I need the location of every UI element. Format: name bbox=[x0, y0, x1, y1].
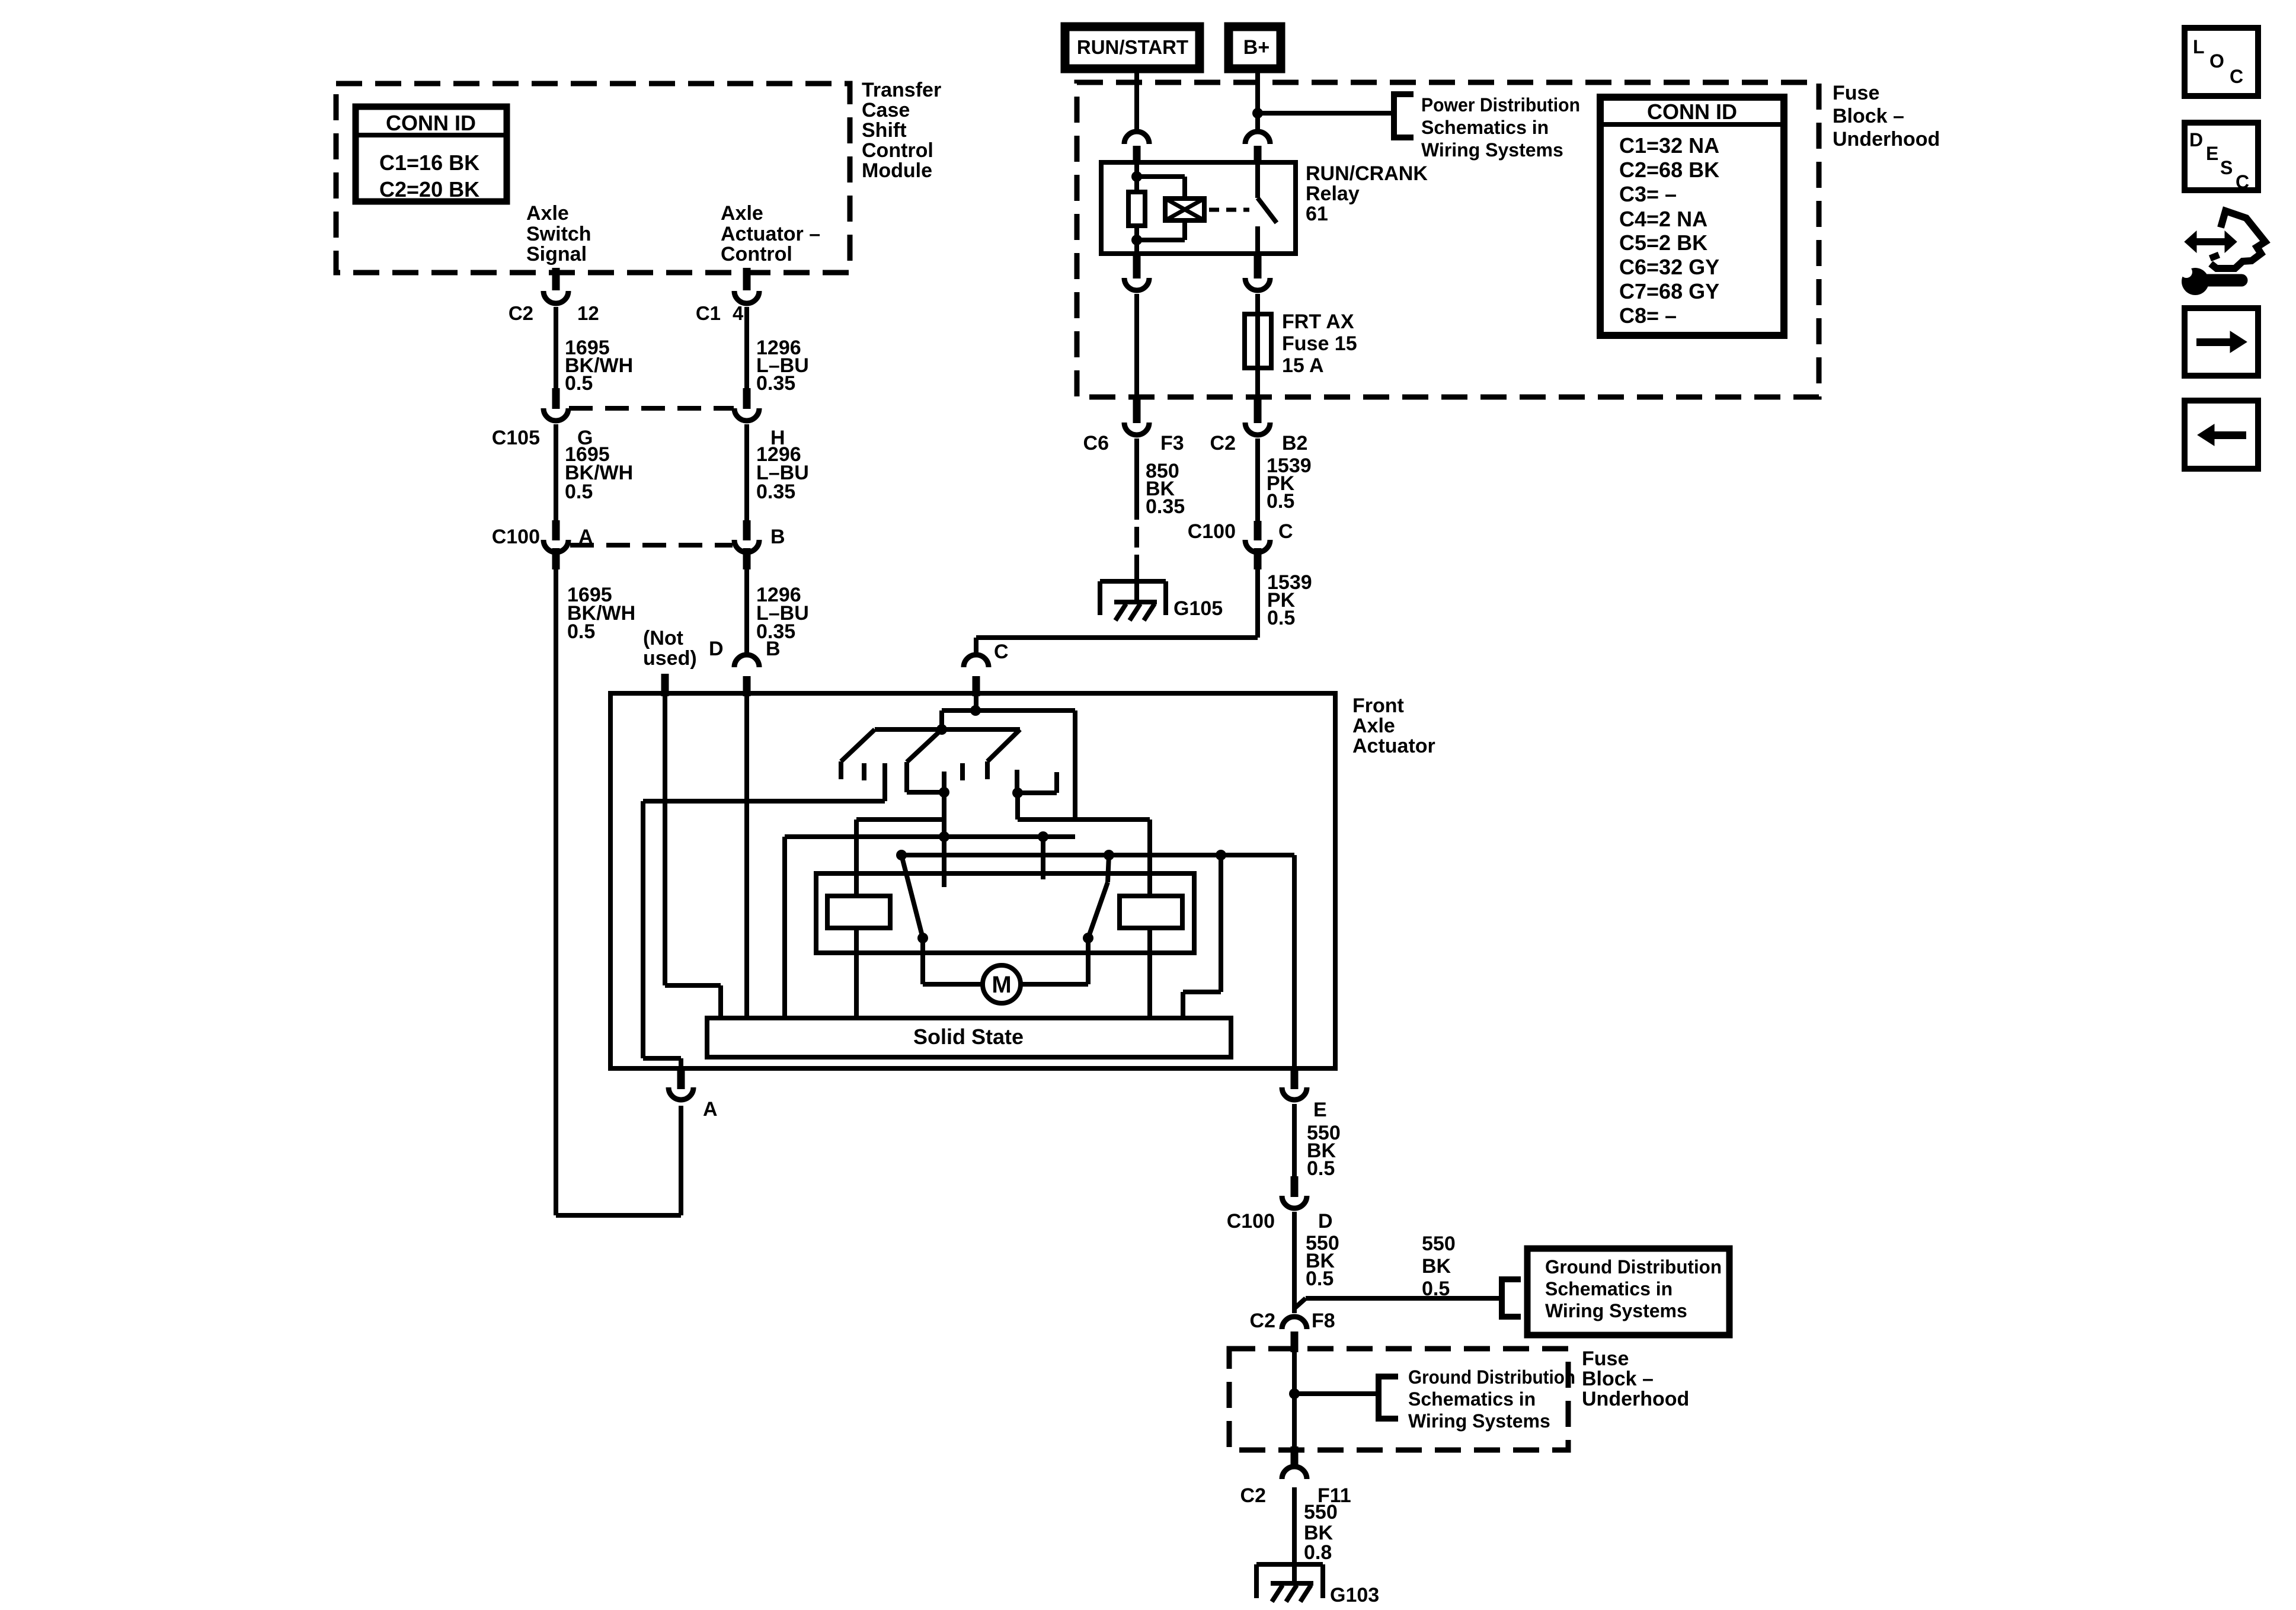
connector relay pin 86 (RUN/START side) bbox=[1124, 132, 1149, 144]
svg-text:CONN ID: CONN ID bbox=[386, 111, 476, 135]
svg-text:G105: G105 bbox=[1173, 597, 1223, 620]
wire 550 BK C100 to C2 F8 bbox=[1292, 1212, 1297, 1313]
wire position sense riser bbox=[1073, 710, 1077, 820]
wire 1296 L-BU 0.35 (C105 to C100) bbox=[744, 424, 749, 520]
wire sense to solid state bbox=[1219, 855, 1223, 992]
svg-text:D: D bbox=[1318, 1210, 1333, 1233]
connector C2 pin B2 bbox=[1254, 396, 1262, 423]
motor relay blade right bbox=[1108, 855, 1109, 882]
svg-text:B2: B2 bbox=[1282, 432, 1307, 454]
wire left coil feed bbox=[854, 820, 859, 896]
svg-text:FRT AX: FRT AX bbox=[1282, 311, 1354, 333]
junction contact feed right bbox=[1038, 831, 1048, 842]
wire coil branch top bbox=[1137, 174, 1185, 179]
svg-text:C1=32 NA: C1=32 NA bbox=[1619, 133, 1719, 158]
wire 1695 BK/WH 0.5 (C100 down to loop) bbox=[554, 569, 558, 1215]
svg-text:Case: Case bbox=[862, 99, 910, 121]
fuse block underhood box lower (dashed) bbox=[1229, 1349, 1568, 1450]
relay box RUN/CRANK Relay 61 bbox=[1101, 162, 1296, 254]
svg-text:D: D bbox=[709, 638, 724, 660]
wire C feed inside actuator bbox=[974, 696, 978, 710]
svg-text:0.5: 0.5 bbox=[1307, 1157, 1335, 1180]
wire 1539 PK to actuator C bbox=[1255, 569, 1260, 638]
svg-text:0.5: 0.5 bbox=[565, 372, 593, 395]
svg-text:Ground Distribution: Ground Distribution bbox=[1545, 1256, 1722, 1278]
svg-text:C: C bbox=[1278, 520, 1293, 543]
svg-text:C: C bbox=[994, 641, 1009, 663]
svg-text:Ground Distribution: Ground Distribution bbox=[1408, 1366, 1575, 1388]
svg-text:F8: F8 bbox=[1312, 1310, 1335, 1332]
fuse block underhood box (dashed) bbox=[1077, 82, 1819, 397]
svg-text:550: 550 bbox=[1422, 1233, 1456, 1255]
svg-text:Control: Control bbox=[862, 139, 933, 162]
connector C2 pin F8 bbox=[1282, 1317, 1307, 1329]
wire fuse to C2 B2 bbox=[1255, 368, 1260, 399]
switch fixed contact t2 chain to pin A bbox=[882, 763, 887, 801]
junction C feed bbox=[970, 705, 981, 716]
fuse FRT AX Fuse 15 15A bbox=[1245, 314, 1271, 368]
svg-text:M: M bbox=[992, 972, 1011, 998]
relay actuation dashed link bbox=[1209, 208, 1249, 212]
svg-text:Axle: Axle bbox=[721, 202, 763, 225]
svg-text:C2: C2 bbox=[1240, 1484, 1266, 1507]
svg-text:Actuator: Actuator bbox=[1352, 735, 1435, 757]
icon LOC bbox=[2185, 28, 2258, 96]
svg-text:Wiring Systems: Wiring Systems bbox=[1545, 1300, 1687, 1321]
svg-text:C100: C100 bbox=[1227, 1210, 1275, 1233]
svg-text:S: S bbox=[2220, 157, 2233, 178]
svg-text:C7=68 GY: C7=68 GY bbox=[1619, 279, 1719, 303]
relay contacts box (motor relay) bbox=[816, 873, 1194, 953]
svg-text:0.35: 0.35 bbox=[756, 481, 795, 503]
connector C2 pin F11 bbox=[1291, 1446, 1299, 1465]
connector C1 pin 4 (module output) bbox=[743, 268, 751, 290]
connector C2 pin 12 (module output) bbox=[552, 268, 560, 290]
svg-text:Solid State: Solid State bbox=[913, 1025, 1024, 1049]
svg-text:C3= –: C3= – bbox=[1619, 182, 1677, 206]
wire motor left bbox=[920, 938, 925, 984]
svg-text:C8= –: C8= – bbox=[1619, 303, 1677, 328]
icon schematic navigation (arrow and wrench) bbox=[2194, 238, 2227, 245]
connector relay pin 87 output bbox=[1254, 256, 1262, 279]
svg-text:0.8: 0.8 bbox=[1304, 1541, 1332, 1564]
junction relay coil bottom bbox=[1131, 235, 1142, 245]
connector E (front axle actuator) bbox=[1291, 1069, 1299, 1089]
svg-text:0.35: 0.35 bbox=[756, 372, 795, 395]
svg-text:B: B bbox=[766, 638, 781, 660]
connector B (front axle actuator) bbox=[734, 655, 759, 667]
svg-text:C2=20 BK: C2=20 BK bbox=[379, 177, 479, 201]
wire relay coil right feed bbox=[1147, 820, 1152, 896]
svg-text:E: E bbox=[1313, 1099, 1327, 1121]
wire 1695 BK/WH 0.5 (C105 to C100) bbox=[554, 424, 558, 520]
wire pin D not used run bbox=[663, 696, 667, 985]
svg-text:Underhood: Underhood bbox=[1833, 128, 1940, 151]
relay coil right (motor relay) bbox=[1120, 896, 1182, 928]
svg-text:Fuse: Fuse bbox=[1582, 1347, 1629, 1370]
switch fixed contact t1 bbox=[862, 763, 866, 780]
svg-text:Signal: Signal bbox=[526, 243, 587, 265]
svg-text:D: D bbox=[2189, 129, 2203, 151]
svg-text:Front: Front bbox=[1352, 694, 1404, 717]
wire branch to power distribution reference bbox=[1258, 111, 1394, 116]
svg-text:0.5: 0.5 bbox=[567, 620, 595, 643]
switch contact column bbox=[942, 772, 946, 887]
wire right coil to solid state bbox=[1147, 928, 1152, 1018]
junction motor bus left bbox=[896, 850, 907, 860]
svg-text:Relay: Relay bbox=[1306, 183, 1360, 205]
svg-text:Axle: Axle bbox=[1352, 715, 1395, 737]
reference box Ground Distribution Schematics in Wiring Systems (upper) bbox=[1527, 1249, 1729, 1335]
wire mode switch common bus bbox=[942, 708, 1075, 713]
junction relay coil top bbox=[1131, 171, 1142, 182]
icon DESC bbox=[2185, 123, 2258, 190]
svg-text:Schematics in: Schematics in bbox=[1421, 117, 1549, 138]
ground G103 bbox=[1256, 1562, 1323, 1567]
wire 1296 L-BU 0.35 (C100 to actuator B) bbox=[744, 569, 749, 652]
bracket ground distribution reference (lower) bbox=[1379, 1377, 1398, 1419]
svg-text:Wiring Systems: Wiring Systems bbox=[1408, 1410, 1550, 1432]
wire 1539 PK to C100 C bbox=[1255, 438, 1260, 521]
switch blade center bbox=[907, 729, 942, 762]
wire B+ to relay bbox=[1255, 73, 1260, 130]
relay coil feed wire bbox=[1134, 162, 1139, 192]
svg-text:C: C bbox=[2230, 66, 2243, 87]
connector C100 pin D bbox=[1291, 1176, 1299, 1197]
module box Transfer Case Shift Control Module (dashed) bbox=[336, 84, 850, 273]
solid state module bbox=[707, 1018, 1231, 1057]
relay solenoid coil symbol (box with X) bbox=[1165, 199, 1204, 220]
svg-text:A: A bbox=[703, 1098, 718, 1121]
wire relay 85 to C6 bbox=[1134, 294, 1139, 399]
dashed connector line C100 bbox=[570, 543, 733, 548]
svg-text:Fuse: Fuse bbox=[1833, 82, 1879, 104]
connector C100 pin B bbox=[743, 520, 751, 540]
wire pin B run bbox=[744, 696, 749, 1018]
pin stub D not used bbox=[661, 674, 669, 696]
svg-text:B+: B+ bbox=[1243, 36, 1269, 59]
svg-text:E: E bbox=[2206, 143, 2218, 164]
svg-text:C105: C105 bbox=[492, 427, 540, 449]
motor M bbox=[983, 965, 1021, 1003]
wire 1296 L-BU 0.35 (module to C105) bbox=[744, 307, 749, 388]
bracket power distribution reference bbox=[1394, 94, 1414, 137]
junction contact feed left bbox=[939, 831, 949, 842]
wire relay 87 to fuse bbox=[1255, 294, 1260, 314]
wire motor right bbox=[1086, 938, 1091, 984]
svg-text:0.5: 0.5 bbox=[565, 481, 593, 503]
svg-text:Transfer: Transfer bbox=[862, 79, 941, 101]
wire loop bottom to actuator pin A bbox=[556, 1213, 681, 1218]
svg-text:C4=2 NA: C4=2 NA bbox=[1619, 207, 1707, 231]
svg-text:C100: C100 bbox=[1188, 520, 1236, 543]
svg-text:Power Distribution: Power Distribution bbox=[1421, 94, 1580, 116]
switch fixed contact lower right bbox=[1041, 837, 1045, 879]
wire contact feed bus bbox=[785, 834, 1075, 839]
junction motor terminal left bbox=[917, 933, 928, 943]
power feed RUN/START bbox=[1065, 27, 1200, 69]
wire coil branch bottom bbox=[1182, 220, 1187, 240]
svg-text:C2=68 BK: C2=68 BK bbox=[1619, 158, 1719, 182]
svg-text:used): used) bbox=[643, 647, 697, 670]
svg-text:0.5: 0.5 bbox=[1422, 1278, 1450, 1300]
wire splice to ground distribution reference bbox=[1294, 1298, 1306, 1308]
connector C100 pin A bbox=[552, 520, 560, 540]
motor relay blade left bbox=[901, 855, 923, 938]
icon arrow next bbox=[2185, 308, 2258, 376]
relay coil lower wire bbox=[1134, 226, 1139, 254]
CONN ID table (fuse block underhood) bbox=[1600, 97, 1784, 335]
resistor relay coil resistor bbox=[1128, 192, 1145, 226]
wire U group to position feed bbox=[1015, 793, 1020, 820]
connector C105 pin G bbox=[552, 388, 560, 409]
svg-text:550: 550 bbox=[1304, 1501, 1338, 1523]
svg-text:C1=16 BK: C1=16 BK bbox=[379, 151, 479, 175]
svg-text:0.5: 0.5 bbox=[1306, 1267, 1334, 1290]
wire RUN/START to relay bbox=[1134, 73, 1139, 130]
connector C6 pin F3 bbox=[1133, 396, 1141, 423]
svg-text:Actuator –: Actuator – bbox=[721, 223, 820, 245]
switch blade left wafer bbox=[841, 729, 875, 761]
icon arrow previous bbox=[2185, 401, 2258, 469]
relay switch blade bbox=[1258, 198, 1277, 223]
svg-text:12: 12 bbox=[577, 302, 599, 324]
component box Front Axle Actuator bbox=[610, 693, 1335, 1068]
svg-text:Schematics in: Schematics in bbox=[1545, 1278, 1673, 1299]
svg-text:(Not: (Not bbox=[643, 627, 683, 649]
junction ground distribution tap bbox=[1289, 1388, 1300, 1399]
junction motor terminal right bbox=[1083, 933, 1093, 943]
junction motor bus blade right bbox=[1104, 850, 1114, 860]
dashed connector line C105 bbox=[569, 406, 734, 411]
switch blade right wafer bbox=[987, 729, 1020, 761]
svg-text:C2: C2 bbox=[1250, 1310, 1275, 1332]
svg-text:0.5: 0.5 bbox=[1267, 490, 1294, 513]
CONN ID table (module) bbox=[356, 107, 507, 201]
svg-text:O: O bbox=[2209, 50, 2224, 72]
wire 550 BK E to C100 D bbox=[1292, 1104, 1297, 1176]
svg-text:RUN/CRANK: RUN/CRANK bbox=[1306, 162, 1428, 185]
junction B+ branch bbox=[1252, 108, 1263, 119]
svg-text:Module: Module bbox=[862, 159, 932, 182]
power feed B+ bbox=[1229, 27, 1281, 69]
wire left coil to solid state bbox=[854, 928, 859, 1018]
svg-text:61: 61 bbox=[1306, 203, 1328, 225]
junction motor bus sense bbox=[1216, 850, 1226, 860]
junction switch common bbox=[936, 724, 947, 735]
svg-text:Shift: Shift bbox=[862, 119, 907, 142]
connector relay pin 85 output bbox=[1133, 256, 1141, 279]
svg-text:B: B bbox=[770, 526, 785, 548]
wire switch wafer bar bbox=[875, 727, 1020, 732]
junction U group bbox=[1012, 788, 1023, 798]
svg-text:Switch: Switch bbox=[526, 223, 591, 245]
connector C105 pin H bbox=[743, 388, 751, 409]
wire inside lower fuse block bbox=[1292, 1352, 1297, 1446]
connector A (front axle actuator) bbox=[677, 1069, 685, 1089]
svg-text:0.35: 0.35 bbox=[1146, 495, 1185, 518]
svg-text:RUN/START: RUN/START bbox=[1077, 36, 1188, 58]
svg-text:C: C bbox=[2236, 171, 2249, 193]
svg-text:Schematics in: Schematics in bbox=[1408, 1388, 1536, 1410]
relay switch fixed contact upper bbox=[1255, 162, 1260, 198]
svg-text:CONN ID: CONN ID bbox=[1647, 100, 1737, 124]
connector C (front axle actuator) bbox=[964, 655, 989, 667]
svg-text:L: L bbox=[2193, 36, 2205, 57]
svg-text:C1: C1 bbox=[696, 302, 721, 324]
svg-text:Fuse 15: Fuse 15 bbox=[1282, 332, 1357, 355]
svg-text:Axle: Axle bbox=[526, 202, 569, 225]
wire E output inside bbox=[1292, 855, 1297, 1068]
svg-text:0.5: 0.5 bbox=[1267, 607, 1295, 629]
svg-text:C2: C2 bbox=[509, 302, 533, 324]
wire 1695 BK/WH 0.5 (module to C105) bbox=[554, 307, 558, 388]
relay coil left (motor relay) bbox=[827, 896, 890, 928]
switch fixed contact t3 bbox=[960, 763, 965, 780]
svg-text:Block –: Block – bbox=[1582, 1368, 1654, 1390]
svg-text:Wiring Systems: Wiring Systems bbox=[1421, 139, 1563, 161]
svg-text:C5=2 BK: C5=2 BK bbox=[1619, 231, 1707, 255]
svg-text:4: 4 bbox=[733, 302, 744, 324]
wire 850 BK to G105 (with break) bbox=[1134, 438, 1139, 520]
connector C100 pin C bbox=[1254, 521, 1262, 540]
svg-text:F3: F3 bbox=[1160, 432, 1184, 454]
svg-text:C100: C100 bbox=[492, 526, 540, 548]
svg-text:C6=32 GY: C6=32 GY bbox=[1619, 255, 1719, 279]
ground G105 bbox=[1100, 579, 1166, 584]
svg-text:Control: Control bbox=[721, 243, 792, 265]
switch contact U group bbox=[1015, 770, 1019, 793]
wire tap to ground distribution reference bbox=[1294, 1391, 1379, 1396]
svg-text:15 A: 15 A bbox=[1282, 354, 1324, 377]
connector relay pin 30 (B+ side) bbox=[1245, 132, 1270, 144]
wire motor feed bus bbox=[901, 853, 1294, 857]
junction center blade to contact bbox=[939, 787, 949, 798]
wire 550 BK 0.8 to G103 bbox=[1292, 1487, 1297, 1585]
svg-text:Underhood: Underhood bbox=[1582, 1388, 1689, 1410]
svg-text:BK: BK bbox=[1422, 1255, 1451, 1278]
svg-text:C2: C2 bbox=[1210, 432, 1236, 454]
svg-text:Block –: Block – bbox=[1833, 105, 1904, 127]
relay switch fixed contact lower bbox=[1255, 226, 1260, 254]
svg-text:C6: C6 bbox=[1083, 432, 1109, 454]
svg-text:G103: G103 bbox=[1330, 1584, 1379, 1606]
wire contact feed to solid state bbox=[782, 837, 787, 1018]
bracket ground distribution reference (upper) bbox=[1502, 1279, 1521, 1317]
